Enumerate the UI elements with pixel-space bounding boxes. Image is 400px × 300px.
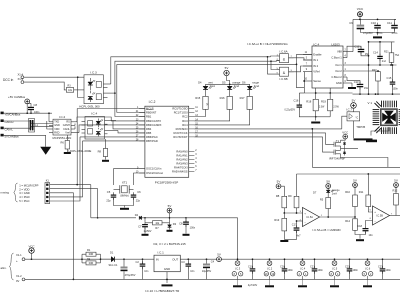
svg-text:RB0/INT: RB0/INT: [146, 111, 157, 115]
wire gate A in1: [271, 55, 277, 58]
svg-text:100n: 100n: [386, 269, 392, 272]
wire cmp minus: [297, 220, 303, 222]
svg-text:5V: 5V: [217, 252, 221, 256]
svg-text:R16: R16: [220, 96, 225, 100]
svg-text:2mA: 2mA: [254, 84, 260, 88]
wire D5 R16: [229, 89, 231, 96]
svg-text:Out 1: Out 1: [335, 63, 342, 67]
svg-text:I.C.5A et B = LM393D: I.C.5A et B = LM393D: [313, 228, 341, 232]
wire D4 R15: [205, 89, 207, 96]
wire +5Vcanbus: [4, 112, 52, 114]
svg-text:5V: 5V: [394, 178, 398, 182]
svg-text:C7: C7: [138, 225, 142, 229]
resistor R11: [366, 195, 371, 207]
wire CAN-L: [4, 126, 53, 128]
wire vref left: [303, 72, 305, 93]
wire ground rail bottom: [25, 278, 400, 280]
svg-text:5 = PGC: 5 = PGC: [19, 199, 29, 203]
IC TMP35: [347, 112, 360, 121]
svg-text:+: +: [16, 259, 18, 263]
wire enable vertical: [116, 64, 118, 112]
wire Vref Sense bottom: [315, 88, 317, 99]
wire OSC1: [114, 169, 145, 185]
wire CANH to BU1: [74, 124, 76, 126]
header pin3 wire GND: [50, 193, 74, 280]
fan V1 symbol: [380, 108, 398, 126]
wire c8 node: [30, 103, 32, 104]
resistor R16 led: [227, 96, 232, 109]
wire C7 link: [144, 218, 146, 222]
svg-text:I.C.6B: I.C.6B: [279, 77, 287, 81]
wire enable to L6203: [297, 54, 313, 64]
svg-text:C14: C14: [373, 51, 378, 55]
resistor R10: [353, 195, 358, 207]
capacitor C3: [186, 264, 192, 265]
wire 5V up to D3 network: [186, 218, 238, 259]
wire pin1 to pullup node: [90, 185, 92, 218]
svg-text:D4: D4: [198, 80, 202, 84]
wire gate B in: [271, 61, 277, 69]
svg-text:I.C.3: I.C.3: [235, 266, 241, 270]
wire top small rail: [369, 41, 395, 43]
gate A pins: [277, 55, 280, 57]
svg-text:MCLR: MCLR: [146, 107, 154, 111]
wire R8: [105, 139, 107, 149]
ground sense: [315, 117, 317, 121]
wire C1: [123, 259, 125, 266]
svg-text:I.C.7: I.C.7: [346, 108, 352, 112]
connector +5VCANBus pin: [1, 112, 4, 115]
wire RB1 from opto: [115, 93, 145, 116]
svg-text:R9: R9: [288, 194, 292, 198]
svg-text:D3: D3: [173, 222, 177, 226]
svg-text:I.C.2: I.C.2: [267, 266, 273, 270]
svg-text:vert: vert: [208, 80, 213, 84]
svg-text:C11: C11: [387, 21, 392, 25]
wire bus DCC signal B: [115, 61, 271, 93]
wire sense rail: [304, 92, 352, 94]
wire RB4 from IC4: [113, 121, 145, 129]
svg-text:D6: D6: [242, 80, 246, 84]
svg-text:CANH: CANH: [63, 124, 70, 127]
header pin5 wire PGC: [50, 137, 80, 201]
wire R17 to PIC RC4: [194, 109, 249, 125]
T1 body diodes: [343, 143, 346, 145]
svg-text:RB3/CANRX: RB3/CANRX: [146, 123, 162, 127]
svg-text:C8: C8: [34, 103, 38, 107]
choke BU1: [29, 119, 35, 133]
wire gate A in2: [271, 60, 280, 63]
wire C17: [296, 221, 298, 227]
PIC osc pins: [139, 168, 145, 170]
svg-text:D2: D2: [135, 213, 139, 217]
svg-text:Enable: Enable: [313, 53, 322, 57]
svg-text:D1: D1: [110, 250, 114, 254]
wire C15: [298, 93, 300, 102]
svg-text:2.5W: 2.5W: [319, 107, 325, 109]
wire r10 r11 bottom: [354, 207, 356, 218]
wire IC1 out: [180, 258, 216, 260]
wire C18: [365, 223, 367, 226]
wire C10: [377, 19, 379, 24]
svg-text:VCC: VCC: [357, 7, 364, 11]
svg-text:2mA: 2mA: [234, 84, 240, 88]
L6203 left pins: [303, 53, 312, 55]
svg-text:0,22µ/35V: 0,22µ/35V: [284, 110, 295, 112]
wire R6: [66, 135, 68, 141]
svg-text:IN 2: IN 2: [313, 64, 318, 68]
svg-text:TMP35: TMP35: [356, 125, 365, 129]
svg-text:R17: R17: [240, 96, 245, 100]
svg-text:5V: 5V: [352, 98, 356, 102]
wire RB6 PGC to header: [80, 136, 145, 138]
MCP2551 pin wires left: [48, 113, 50, 122]
wire R12: [395, 187, 397, 193]
svg-text:00R: 00R: [89, 253, 94, 256]
svg-text:RA0/AN0: RA0/AN0: [176, 150, 188, 154]
svg-text:5V: 5V: [277, 180, 281, 184]
svg-text:RB6/PGC: RB6/PGC: [146, 135, 158, 139]
PIC right RA pins: [189, 151, 195, 153]
svg-text:5V: 5V: [168, 204, 172, 208]
wire 5VCANBus ground: [4, 135, 46, 146]
connector CAN-H pin: [1, 119, 4, 122]
svg-text:4 = PGD: 4 = PGD: [19, 195, 29, 199]
capacitor C4 elec: [203, 264, 210, 266]
svg-text:TXD: TXD: [54, 121, 59, 124]
wire ic5b out: [390, 215, 397, 217]
wire sense resistors to ground: [315, 111, 317, 117]
svg-text:22p: 22p: [136, 200, 141, 203]
svg-text:I.C.5A: I.C.5A: [306, 216, 313, 219]
ground pwr2: [330, 285, 339, 287]
svg-text:I.C.2: I.C.2: [59, 115, 66, 119]
svg-text:R19: R19: [321, 99, 326, 103]
svg-text:RA2/AN2: RA2/AN2: [176, 158, 188, 162]
wire ic5b inputs: [354, 217, 356, 219]
wire VCC rail: [353, 18, 396, 20]
capacitor C8 mclr: [183, 222, 189, 223]
wire C2: [142, 259, 144, 263]
op-amp I.C.5A: [303, 208, 320, 227]
wire R19 right from rail: [329, 93, 331, 99]
resistor R8 pulldown: [103, 149, 107, 157]
gate B pins: [277, 69, 280, 71]
svg-text:K1: K1: [46, 179, 50, 183]
svg-text:orange: orange: [332, 189, 340, 192]
wire C8 gnd: [185, 225, 187, 234]
earth symbol CAN: [40, 147, 51, 155]
wire plus rail: [25, 258, 113, 260]
svg-text:Vref: Vref: [65, 131, 70, 134]
ground crystal: [120, 208, 129, 210]
wire out2 to motor: [374, 70, 377, 72]
svg-text:75A: 75A: [395, 54, 400, 57]
wire fan: [371, 127, 389, 136]
svg-text:GND: GND: [164, 267, 170, 271]
wire T1 out mid: [341, 147, 359, 149]
wire TXD to PIC RB2: [77, 117, 145, 122]
svg-text:I.C.5B: I.C.5B: [376, 215, 383, 218]
wire CANL to BU1: [74, 126, 76, 129]
supply 5V r12: [394, 183, 399, 188]
ground R6: [64, 152, 71, 154]
PIC left pins: [139, 108, 145, 110]
opto LED channel 1: [88, 82, 93, 85]
svg-text:Out 2: Out 2: [335, 69, 342, 73]
svg-text:2mA: 2mA: [210, 84, 216, 88]
svg-text:C4: C4: [211, 260, 215, 264]
svg-text:C8: C8: [179, 222, 183, 226]
svg-text:100n: 100n: [288, 269, 294, 272]
wire D3 bottom gnd: [169, 227, 171, 229]
svg-text:(8MHz): (8MHz): [120, 194, 128, 197]
wire R14 bottom: [355, 230, 360, 234]
svg-text:1 = MCLR/ICPP: 1 = MCLR/ICPP: [19, 183, 38, 187]
svg-text:I.C.2: I.C.2: [149, 100, 156, 104]
svg-text:S1G: S1G: [109, 264, 114, 267]
wire tmp35 out left: [342, 116, 347, 129]
wire IC1 gnd: [166, 272, 168, 283]
wire rail 2: [297, 173, 400, 175]
wire C14: [379, 42, 381, 56]
wire C9: [359, 19, 361, 24]
svg-text:R12: R12: [393, 189, 398, 193]
power pins I.C.3: [235, 261, 240, 266]
svg-text:mming: mming: [1, 191, 10, 195]
wire RC5 to sense rail: [194, 128, 341, 130]
ground pwr ic3: [233, 285, 242, 287]
svg-text:GND: GND: [336, 81, 342, 85]
svg-text:C.Boot 2: C.Boot 2: [331, 75, 342, 79]
wire bottom rail right: [353, 93, 400, 95]
svg-text:RB4: RB4: [146, 127, 152, 131]
wire r1r2 join: [81, 254, 83, 263]
svg-text:Sense: Sense: [313, 79, 321, 83]
svg-text:C5: C5: [107, 190, 111, 194]
svg-text:I.C.5: I.C.5: [332, 266, 338, 270]
svg-text:RA5/AN4/SS: RA5/AN4/SS: [172, 170, 188, 174]
IC4 pins: [105, 120, 117, 122]
svg-text:HCPL 063L.000: HCPL 063L.000: [79, 104, 100, 108]
wire xtal: [114, 188, 120, 190]
svg-text:V88: V88: [337, 50, 342, 54]
opto transistor 1: [96, 82, 101, 88]
wire node to C8: [170, 218, 187, 222]
svg-text:R8: R8: [98, 150, 102, 154]
wire ic5a out: [320, 216, 356, 218]
supply 5V r10: [353, 183, 358, 188]
svg-text:XT1: XT1: [122, 181, 128, 185]
svg-text:I.C.6: I.C.6: [365, 266, 371, 270]
power pins I.C.5: [332, 261, 337, 266]
svg-text:RB7/PGD: RB7/PGD: [146, 139, 158, 143]
supply 5V out: [217, 257, 222, 262]
svg-text:R6: R6: [60, 141, 64, 145]
svg-text:I.C.10 = L7805ABD2T-TR: I.C.10 = L7805ABD2T-TR: [145, 289, 180, 293]
resistor R18 sense: [313, 99, 318, 111]
svg-text:R5: R5: [320, 198, 324, 202]
supply 5V d7: [326, 184, 331, 189]
svg-text:RA3/AN3: RA3/AN3: [176, 162, 188, 166]
svg-text:C.Boot 1: C.Boot 1: [331, 56, 342, 60]
wire ic5b out right: [396, 215, 400, 217]
svg-text:R8: R8: [276, 194, 280, 198]
svg-text:2n2: 2n2: [382, 60, 387, 63]
resistor R7: [153, 221, 163, 225]
wire gate B in2: [268, 57, 277, 74]
wire C11 top: [394, 19, 396, 24]
resistor R15 led: [203, 96, 208, 109]
wire gate outputs to L6203: [289, 58, 313, 60]
ground vcc caps: [377, 33, 379, 36]
wire VCC down: [359, 17, 361, 20]
svg-text:C15: C15: [387, 76, 392, 80]
svg-text:OSC2/CLKout: OSC2/CLKout: [146, 171, 163, 175]
svg-text:RC0/T1OSO: RC0/T1OSO: [172, 107, 187, 111]
svg-text:RS: RS: [66, 121, 70, 124]
svg-text:R7: R7: [155, 226, 159, 230]
wire T1 drain VCC: [341, 139, 346, 140]
wire X1-4 to IC3: [24, 76, 84, 78]
svg-text:10n: 10n: [369, 234, 374, 237]
opto LED channel 2: [88, 97, 93, 100]
connector 5VCANBus pin: [1, 134, 4, 137]
wire boot1 to out1: [368, 42, 370, 94]
wire D6 R17: [249, 89, 251, 96]
svg-text:X1-1: X1-1: [16, 253, 22, 257]
svg-text:470µ/35V: 470µ/35V: [125, 274, 136, 277]
svg-text:RB1: RB1: [146, 115, 152, 119]
capacitor C1 elec: [121, 267, 128, 269]
svg-text:V.Ref: V.Ref: [313, 70, 320, 74]
opto transistor 2: [96, 94, 101, 100]
wire caps to ground: [114, 198, 134, 206]
wire R13 gnd: [283, 231, 285, 240]
svg-text:3 = GND: 3 = GND: [19, 191, 30, 195]
svg-text:R21: R21: [384, 50, 389, 53]
resistor R6: [65, 141, 69, 150]
wire VCC to L6203 VS: [352, 19, 354, 51]
svg-text:00R: 00R: [89, 262, 94, 265]
svg-text:I.C.4: I.C.4: [300, 266, 306, 270]
wire tmp35 5v: [353, 108, 355, 112]
wire d2 out: [142, 217, 170, 219]
svg-text:2mA: 2mA: [332, 193, 337, 196]
svg-text:X1-2: X1-2: [16, 274, 22, 278]
svg-text:I.C.1: I.C.1: [158, 251, 165, 255]
svg-text:RA1/AN1: RA1/AN1: [176, 154, 188, 158]
T1 drain bar: [366, 140, 377, 143]
svg-text:I.C.4: I.C.4: [91, 111, 98, 115]
svg-text:R18: R18: [306, 99, 311, 103]
svg-text:5V: 5V: [353, 178, 357, 182]
wire 5v rail continue: [221, 258, 400, 260]
svg-text:5V: 5V: [225, 66, 229, 70]
header pin1 wire MCLR: [50, 184, 91, 186]
svg-text:rouge: rouge: [252, 80, 259, 84]
wire R16 to PIC RC3: [194, 109, 229, 121]
wire C12: [347, 46, 361, 57]
wire MCLR to header: [77, 108, 145, 110]
svg-text:100n: 100n: [190, 227, 196, 230]
svg-text:D7: D7: [313, 191, 317, 195]
svg-text:OUT: OUT: [172, 258, 178, 262]
MCP2551 left pins: [49, 121, 53, 123]
svg-text:R11: R11: [359, 190, 364, 194]
wire R7: [145, 222, 153, 224]
wire MCLR vertical to PIC: [76, 109, 78, 185]
L6203 right pins: [343, 51, 353, 53]
wire D1 out: [115, 258, 155, 260]
wire OSC2: [134, 173, 145, 185]
wire CAN-H: [4, 121, 53, 124]
opto2 transistor 2: [88, 129, 93, 134]
svg-text:OSC1/CLKin: OSC1/CLKin: [146, 167, 162, 171]
svg-text:C1: C1: [114, 263, 118, 267]
svg-text:100n: 100n: [353, 269, 359, 272]
supply 5V tmp35: [351, 103, 357, 109]
wire ic5b minus: [366, 221, 373, 223]
svg-text:RA4/T0CKI: RA4/T0CKI: [174, 166, 188, 170]
svg-text:+5V CANBus: +5V CANBus: [8, 95, 26, 99]
wire out1 across: [371, 64, 397, 66]
opto2 LED channel 1: [96, 121, 100, 124]
power pins I.C.4: [300, 261, 305, 266]
resistor R9 cmp: [294, 196, 299, 208]
ground IC1: [162, 284, 173, 286]
svg-text:IN 1: IN 1: [313, 58, 318, 62]
IC3 output pins: [103, 83, 110, 85]
header pin2 wire VDD: [50, 189, 98, 218]
wire T1 source: [341, 156, 388, 167]
resistor R19 sense: [328, 99, 333, 111]
wire bus DCC signal A: [111, 57, 271, 84]
svg-text:22p: 22p: [106, 200, 111, 203]
svg-text:RC3: RC3: [182, 119, 188, 123]
svg-text:100n: 100n: [393, 88, 399, 91]
svg-text:RB2/CANTX: RB2/CANTX: [146, 119, 161, 123]
svg-text:RC6/TX/CK: RC6/TX/CK: [174, 131, 188, 135]
svg-text:0V: 0V: [16, 279, 19, 283]
wire X1-3 to R3: [24, 82, 67, 90]
ground fan: [354, 138, 373, 140]
supply 5V r8: [276, 184, 281, 189]
wire C15r: [392, 65, 394, 82]
wire tmp35 gnd: [353, 121, 355, 138]
wire r8 top: [281, 186, 284, 196]
svg-text:RC2: RC2: [182, 115, 188, 119]
svg-text:10n: 10n: [144, 270, 149, 273]
svg-text:RC1/T1OSI: RC1/T1OSI: [174, 111, 188, 115]
svg-text:15n: 15n: [364, 87, 369, 90]
supply 5V leds: [224, 70, 229, 75]
header pin4 wire PGD: [50, 141, 83, 197]
svg-text:IN: IN: [156, 258, 159, 262]
resistor R13: [282, 218, 287, 231]
ground R13: [280, 240, 288, 242]
svg-text:I.C.6A et B = NL27WZ08USG: I.C.6A et B = NL27WZ08USG: [247, 42, 288, 46]
svg-text:R1: R1: [87, 248, 91, 252]
svg-text:R15: R15: [195, 96, 200, 100]
wire d7 r5: [327, 193, 329, 198]
svg-text:I.C.3: I.C.3: [90, 71, 97, 75]
network MCLR pullup wires: [91, 217, 136, 219]
svg-text:C2: C2: [135, 260, 139, 264]
resistor R3: [66, 88, 73, 93]
diode D2 real: [139, 216, 141, 220]
ground pwr1: [298, 285, 307, 287]
